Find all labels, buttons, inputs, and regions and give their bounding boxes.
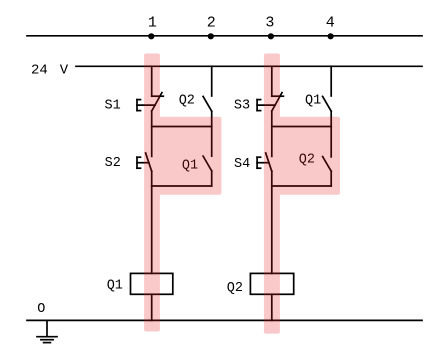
- contact S1 (closed, make): [152, 95, 164, 97]
- wire: column3 rail to S3: [271, 66, 273, 96]
- contact S2 (open, make): [146, 153, 152, 171]
- actuator E of S1: [136, 100, 138, 111]
- wire: column2 junction to Q1 contact: [211, 127, 213, 157]
- wire: rung1 top cross: [152, 126, 212, 128]
- wire: column4 junction to Q2 contact: [330, 127, 332, 157]
- svg-text:S3: S3: [234, 99, 250, 114]
- wire: coil Q1 to 0V rail: [151, 294, 153, 320]
- svg-text:4: 4: [326, 15, 335, 32]
- svg-text:V: V: [60, 63, 69, 79]
- wire: column1 S1 to S2: [151, 111, 153, 156]
- wire: column3 S4 to coil Q2: [271, 171, 273, 273]
- contact Q1 (open, make): [323, 96, 332, 111]
- svg-text:2: 2: [207, 15, 216, 32]
- wire: column4 Q2 contact to bottom cross: [330, 171, 332, 186]
- wire: column1 S2 to coil Q1: [151, 171, 153, 273]
- node 3 dot: [268, 33, 274, 39]
- svg-text:Q2: Q2: [179, 93, 195, 108]
- actuator E of S2: [136, 157, 138, 168]
- contact S3 (closed, make): [272, 95, 284, 97]
- node 4 dot: [328, 33, 334, 39]
- svg-text:O: O: [37, 302, 45, 317]
- wire: column4 Q1 contact to junction: [330, 111, 332, 126]
- contact Q1 (open, make): [203, 156, 212, 171]
- contact Q2 (open, make): [323, 157, 332, 172]
- highlight current path rung2: [264, 54, 340, 334]
- wire: top numbering rail: [27, 35, 422, 37]
- wire: column2 Q1 contact to bottom cross: [211, 171, 213, 186]
- coil Q1: [131, 273, 173, 294]
- wire: column3 S3 to S4: [271, 111, 273, 156]
- wire: rung1 bottom cross: [152, 185, 212, 187]
- coil Q2: [250, 273, 293, 294]
- svg-text:S1: S1: [105, 99, 121, 114]
- svg-text:Q1: Q1: [305, 93, 321, 108]
- node 1 dot: [148, 33, 154, 39]
- wire: rung2 bottom cross: [272, 185, 331, 187]
- node 2 dot: [208, 33, 214, 39]
- wire: 0V bottom rail: [27, 319, 422, 321]
- svg-text:S4: S4: [234, 157, 250, 172]
- wire: column1 rail to S1: [151, 66, 153, 96]
- actuator E of S3: [256, 100, 258, 111]
- actuator E of S4: [256, 157, 258, 168]
- highlight current path rung1: [144, 54, 221, 332]
- contact S4 (open, make): [266, 153, 272, 171]
- wire: column2 rail to Q2 contact: [211, 66, 213, 96]
- svg-text:1: 1: [148, 15, 157, 32]
- svg-text:Q2: Q2: [227, 281, 243, 296]
- svg-text:Q1: Q1: [107, 279, 123, 294]
- wire: rung2 top cross: [272, 126, 331, 128]
- wire: 24V supply rail: [76, 65, 422, 67]
- contact Q2 (open, make): [203, 96, 212, 111]
- svg-text:S2: S2: [105, 156, 121, 171]
- wire: coil Q2 to 0V rail: [271, 294, 273, 320]
- svg-text:3: 3: [265, 15, 274, 32]
- svg-text:24: 24: [31, 63, 48, 79]
- wire: column2 Q2 contact to junction: [211, 111, 213, 126]
- ground: [46, 320, 48, 336]
- wire: column4 rail to Q1 contact: [330, 66, 332, 96]
